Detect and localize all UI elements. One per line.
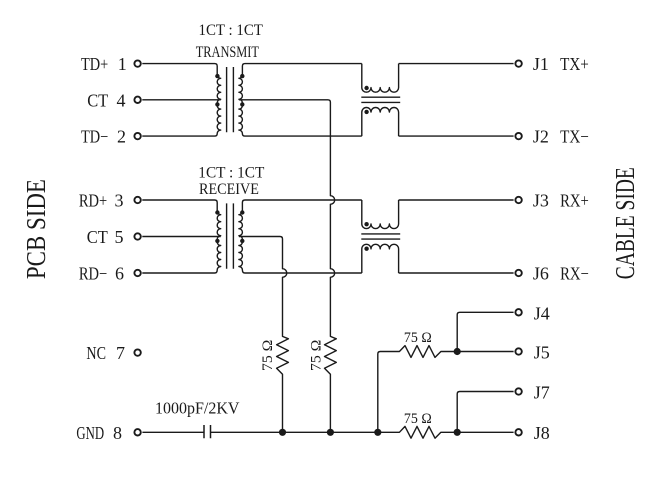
svg-text:NC: NC bbox=[86, 343, 106, 363]
svg-text:1000pF/2KV: 1000pF/2KV bbox=[155, 398, 240, 417]
svg-text:J2: J2 bbox=[533, 127, 549, 147]
svg-text:RD−: RD− bbox=[79, 264, 107, 284]
svg-text:CT: CT bbox=[87, 227, 108, 247]
svg-text:J6: J6 bbox=[533, 264, 549, 284]
svg-text:RX−: RX− bbox=[560, 264, 589, 284]
svg-text:75 Ω: 75 Ω bbox=[404, 411, 432, 427]
svg-text:6: 6 bbox=[115, 264, 124, 284]
svg-text:75 Ω: 75 Ω bbox=[260, 339, 276, 371]
svg-text:3: 3 bbox=[115, 191, 124, 211]
svg-text:1CT : 1CT: 1CT : 1CT bbox=[198, 164, 264, 181]
svg-text:J3: J3 bbox=[533, 191, 549, 211]
svg-text:5: 5 bbox=[115, 227, 124, 247]
svg-text:J1: J1 bbox=[533, 54, 549, 74]
svg-text:TX−: TX− bbox=[560, 127, 589, 147]
svg-text:TX+: TX+ bbox=[560, 54, 589, 74]
svg-text:J7: J7 bbox=[534, 382, 550, 402]
svg-text:1: 1 bbox=[118, 54, 127, 74]
svg-text:RD+: RD+ bbox=[79, 191, 107, 211]
svg-text:75 Ω: 75 Ω bbox=[404, 330, 432, 346]
svg-text:1CT : 1CT: 1CT : 1CT bbox=[199, 22, 264, 39]
svg-text:4: 4 bbox=[117, 90, 126, 110]
svg-text:J8: J8 bbox=[534, 423, 550, 443]
svg-text:7: 7 bbox=[116, 343, 125, 363]
svg-text:TD−: TD− bbox=[81, 127, 108, 147]
svg-text:RECEIVE: RECEIVE bbox=[199, 181, 259, 198]
svg-text:J4: J4 bbox=[534, 304, 550, 324]
svg-text:J5: J5 bbox=[534, 342, 550, 362]
svg-text:TRANSMIT: TRANSMIT bbox=[196, 44, 259, 61]
svg-text:CT: CT bbox=[87, 90, 108, 110]
svg-text:2: 2 bbox=[117, 127, 126, 147]
svg-text:75 Ω: 75 Ω bbox=[308, 339, 324, 371]
svg-text:CABLE SIDE: CABLE SIDE bbox=[609, 167, 640, 279]
svg-text:TD+: TD+ bbox=[81, 54, 108, 74]
svg-text:PCB SIDE: PCB SIDE bbox=[20, 179, 51, 279]
svg-text:8: 8 bbox=[113, 423, 122, 443]
svg-text:RX+: RX+ bbox=[560, 191, 589, 211]
svg-text:GND: GND bbox=[76, 423, 104, 443]
